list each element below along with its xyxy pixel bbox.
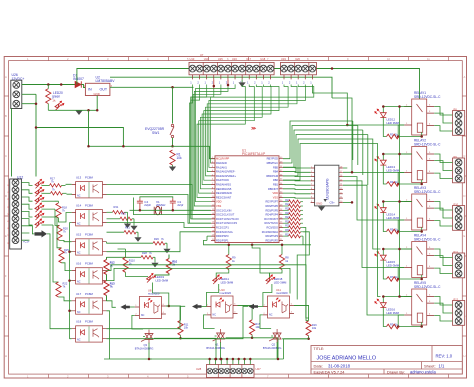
junction gnd a [35, 102, 38, 105]
LED11 LED-3MM [206, 275, 233, 307]
resistor R28 [283, 220, 303, 225]
resistor RW1 10k [169, 150, 182, 171]
junction rail r9 [228, 244, 231, 247]
triac Q2 BTA16-600BRG [260, 315, 281, 359]
svg-text:10k: 10k [177, 156, 183, 160]
capacitor C4 22pF [137, 198, 151, 210]
resistor R13 [104, 281, 115, 301]
svg-text:VSS: VSS [273, 195, 278, 199]
junction 12V rail [331, 67, 334, 70]
wire RB bus to right [283, 121, 381, 297]
resistor R27 [283, 216, 303, 220]
svg-text:RB4: RB4 [273, 170, 279, 174]
svg-text:U17: U17 [246, 57, 251, 61]
PIC left pin labels [216, 157, 239, 243]
svg-text:JOSE ADRIANO MELLO: JOSE ADRIANO MELLO [317, 356, 377, 362]
optocoupler U16 PC8M [72, 262, 107, 284]
LED4 input [35, 203, 44, 212]
resistor R21 [107, 226, 139, 234]
wire strip1 red stubs [214, 79, 228, 88]
port arrow input7 [35, 230, 48, 237]
svg-text:R21: R21 [125, 226, 130, 230]
ground under strip1 [235, 79, 246, 87]
PIC left pin stubs [211, 159, 215, 241]
svg-text:RA4/T0CKI: RA4/T0CKI [216, 178, 229, 182]
svg-text:R31: R31 [114, 205, 119, 209]
svg-text:IN4007: IN4007 [73, 77, 84, 81]
svg-text:LED-3MM: LED-3MM [221, 280, 234, 284]
switch SW1 EVQ22705R [145, 124, 174, 146]
svg-text:RC3/SCK/SCL: RC3/SCK/SCL [216, 230, 234, 234]
capacitor C1 22pf [170, 198, 184, 210]
svg-text:H: H [464, 354, 466, 358]
resistor R26 [283, 212, 303, 217]
svg-text:LED 3MM: LED 3MM [387, 311, 400, 315]
resistor R15 10k [226, 306, 261, 338]
wire bottom rail [149, 338, 284, 359]
svg-text:U27: U27 [256, 367, 262, 371]
svg-text:RC5/SDO: RC5/SDO [266, 226, 278, 230]
junction mclr a [87, 145, 90, 148]
svg-text:adriano.estela: adriano.estela [410, 370, 436, 375]
svg-text:REV: 1.0: REV: 1.0 [436, 353, 453, 358]
svg-text:RD3/PSP3: RD3/PSP3 [265, 234, 278, 238]
wire opto gnd column [70, 223, 72, 339]
ground R32 [130, 219, 137, 231]
LED5 input [35, 211, 44, 220]
PIC right pin stubs [279, 159, 283, 241]
svg-text:RD5/PSP5: RD5/PSP5 [265, 208, 278, 212]
svg-text:LM7805ABV: LM7805ABV [96, 79, 116, 83]
junction R15 bottom [251, 337, 254, 340]
resistor R31 [283, 233, 303, 238]
svg-text:31-08-2018: 31-08-2018 [328, 364, 351, 369]
svg-text:NC: NC [77, 339, 81, 342]
svg-text:RB3/PGM: RB3/PGM [266, 174, 278, 178]
svg-text:U13: U13 [190, 57, 195, 61]
PIC right pin labels [262, 157, 279, 243]
svg-text:E: E [464, 234, 466, 238]
wire relay 12V feeder [400, 107, 412, 297]
wire bus strip1 left to PIC [190, 85, 236, 224]
svg-text:Q2: Q2 [272, 343, 276, 347]
optocoupler U14 PC8M [72, 204, 107, 226]
terminal strip U28 [196, 365, 261, 378]
svg-text:RA2/AN2/VREF-: RA2/AN2/VREF- [216, 170, 235, 174]
junction osc c1 [172, 209, 175, 212]
diode D1 IN4007 [73, 73, 84, 87]
svg-text:1/1: 1/1 [439, 364, 445, 369]
svg-text:D: D [5, 194, 7, 198]
junction feeder b [351, 171, 354, 174]
svg-text:R2: R2 [390, 132, 394, 136]
svg-text:RE2/CS/AN7: RE2/CS/AN7 [216, 195, 232, 199]
svg-text:1k: 1k [52, 98, 56, 102]
resistor R30 [283, 229, 303, 234]
wire input6 to opto6 [47, 234, 72, 329]
svg-text:10k: 10k [312, 326, 317, 330]
svg-text:R3: R3 [390, 322, 394, 326]
svg-text:U15: U15 [218, 57, 223, 61]
svg-text:RB1: RB1 [273, 183, 279, 187]
wire m1 emitter [166, 306, 216, 338]
port arrow AC1 [120, 304, 134, 310]
connector U26 [11, 73, 25, 109]
resistor R10 2k [155, 255, 178, 277]
svg-text:RD7/PSP7: RD7/PSP7 [265, 200, 278, 204]
junction sw node [171, 145, 174, 148]
port arrow AC3 [249, 304, 263, 310]
wire diode to regulator [81, 85, 85, 88]
relay RELAY5 [375, 281, 465, 329]
svg-text:GND: GND [94, 92, 100, 96]
nc mark on bus [252, 127, 256, 129]
svg-text:BTA16-600BRG: BTA16-600BRG [263, 346, 282, 350]
svg-text:BTA16-600BRG: BTA16-600BRG [135, 347, 154, 351]
svg-text:Q3: Q3 [144, 343, 148, 347]
svg-text:RA0/AN0: RA0/AN0 [216, 161, 227, 165]
svg-text:22pF: 22pF [144, 203, 151, 207]
svg-text:U18: U18 [260, 57, 265, 61]
regulator gnd stub [96, 96, 98, 111]
junction bottom triac dots [148, 358, 280, 361]
svg-text:RC0/T1OSO/T1CKI: RC0/T1OSO/T1CKI [216, 217, 239, 221]
svg-text:R26: R26 [154, 237, 159, 241]
svg-text:RB5: RB5 [273, 165, 279, 169]
resistor R32 [107, 212, 135, 221]
svg-text:RA5/AN4/SS: RA5/AN4/SS [216, 183, 231, 187]
resistor R17 7k [42, 177, 66, 188]
svg-text:U15: U15 [76, 233, 82, 237]
svg-text:moc3020: moc3020 [276, 291, 288, 295]
crystal X1 20MHz [154, 200, 166, 215]
junction 5V sw [171, 86, 174, 89]
svg-text:RE1/WR/AN6: RE1/WR/AN6 [216, 191, 232, 195]
resistor R31b [107, 205, 128, 214]
svg-text:U13: U13 [76, 176, 82, 180]
resistor R23 [283, 199, 303, 204]
svg-text:U28: U28 [196, 367, 202, 371]
triac Q3 BTA16-600BRG [132, 315, 153, 359]
svg-text:D: D [464, 194, 466, 198]
junction mclr b [122, 145, 125, 148]
optocoupler U10 moc3020 [206, 288, 237, 318]
svg-text:RB7/PGD: RB7/PGD [267, 157, 279, 161]
svg-text:PC8M: PC8M [85, 204, 93, 208]
label C1 plus [23, 239, 30, 243]
svg-text:RD1/PSP1: RD1/PSP1 [216, 238, 229, 242]
resistor R11 10k [154, 306, 189, 338]
terminal strip 2 [281, 62, 317, 74]
svg-text:SRD-12VDC-SL-C: SRD-12VDC-SL-C [414, 143, 441, 147]
svg-text:LED-3MM: LED-3MM [274, 280, 287, 284]
svg-text:U19: U19 [281, 57, 286, 61]
junction rail mid [251, 244, 254, 247]
svg-text:R5: R5 [390, 227, 394, 231]
svg-text:NC: NC [77, 311, 81, 314]
svg-text:P8: P8 [454, 107, 458, 111]
terminal strip net labels [190, 81, 312, 85]
svg-text:U17: U17 [76, 292, 82, 296]
svg-text:U16: U16 [232, 57, 237, 61]
svg-text:P9: P9 [454, 155, 458, 159]
resistor R8 1k [279, 245, 289, 270]
junction red stub dots [213, 84, 230, 88]
svg-text:RB6/PGC: RB6/PGC [267, 161, 279, 165]
svg-text:RC1/T1OSI/CCP2: RC1/T1OSI/CCP2 [216, 221, 238, 225]
svg-text:moc3020: moc3020 [220, 291, 232, 295]
junction R11 bottom [179, 337, 182, 340]
svg-text:U14: U14 [204, 57, 209, 61]
junction gnd b [35, 126, 38, 129]
svg-text:RC2/CCP1: RC2/CCP1 [216, 226, 229, 230]
connector U12 [10, 175, 24, 249]
svg-text:SRD-12VDC-SL-C: SRD-12VDC-SL-C [414, 285, 441, 289]
junction bottom dots [208, 358, 251, 361]
optocoupler U15 PC8M [72, 233, 107, 255]
svg-text:R32: R32 [121, 212, 126, 216]
wire 12V top rail [77, 69, 420, 100]
terminal strip U7 labels [190, 53, 301, 61]
wire R22 to opto5 [59, 297, 72, 301]
wire m2 emitter [238, 306, 279, 338]
optocoupler U11 moc3020 [263, 288, 294, 318]
svg-text:U7: U7 [200, 53, 204, 57]
svg-text:LED-3MM: LED-3MM [387, 216, 400, 220]
svg-text:G: G [5, 314, 7, 318]
resistor R18 7k [42, 201, 68, 218]
junction feeder a [346, 124, 349, 127]
svg-text:LED-3MM: LED-3MM [387, 168, 400, 172]
svg-text:Date:: Date: [314, 363, 324, 368]
wire bus strip1 right to PIC left (nested) [197, 85, 314, 198]
svg-text:SRD-12VDC-SL-C: SRD-12VDC-SL-C [414, 95, 441, 99]
ground main [75, 110, 82, 115]
svg-text:PC8M: PC8M [85, 292, 93, 296]
svg-text:OSC2/CLKOUT: OSC2/CLKOUT [216, 213, 235, 217]
resistor R22 7k [42, 225, 68, 297]
svg-text:RC4/SDI/SDA: RC4/SDI/SDA [262, 230, 279, 234]
LED19 LED-3MM [147, 273, 169, 306]
ground R31b [124, 212, 131, 228]
wire ULN COM [343, 201, 352, 203]
relay RELAY1 SRD-12VDC-SL-C [375, 91, 465, 139]
op-amp U1 PIC16F877A-I/P [215, 149, 279, 243]
terminal strip pin stubs [193, 75, 313, 80]
LED18 LED-3MM [263, 275, 287, 307]
svg-text:LED-3MM: LED-3MM [156, 278, 169, 282]
resistor R16 10k [282, 306, 317, 339]
resistor R28c 7k [107, 251, 156, 259]
svg-text:10k: 10k [255, 325, 260, 329]
optocoupler U13 PC8M [72, 176, 107, 198]
svg-text:GND: GND [316, 201, 322, 205]
svg-text:A: A [5, 75, 7, 79]
svg-text:PC8M: PC8M [85, 176, 93, 180]
resistor R29 [283, 225, 303, 230]
svg-text:P11: P11 [454, 250, 459, 254]
svg-text:TITLE:: TITLE: [314, 347, 325, 351]
svg-text:VDD: VDD [216, 200, 222, 204]
LED3 input [35, 195, 44, 204]
PIC pin numbers [212, 157, 283, 241]
wire second top rail [110, 77, 332, 98]
svg-text:NC: NC [77, 195, 81, 198]
resistor R24 [283, 203, 303, 208]
resistor R12 [104, 257, 115, 280]
svg-text:R7: R7 [390, 275, 394, 279]
wire osc1 [130, 209, 212, 211]
resistor R12 [104, 257, 115, 280]
svg-text:EasyEDA V5.7.24: EasyEDA V5.7.24 [314, 370, 346, 375]
svg-text:NC: NC [77, 252, 81, 255]
ground R21 [134, 232, 141, 242]
svg-text:RD0/PSP0: RD0/PSP0 [216, 234, 229, 238]
svg-text:VSS: VSS [216, 204, 221, 208]
bottom strip terminals [207, 368, 253, 374]
regulator U2 LM7805ABV [84, 75, 115, 95]
ULN ground [316, 201, 335, 211]
svg-text:VDD: VDD [273, 191, 279, 195]
junction gnd bar b [96, 109, 99, 112]
optocoupler U17 PC8M [72, 292, 107, 314]
svg-text:MCLR/VPP: MCLR/VPP [216, 157, 230, 161]
terminal strip 1 [189, 62, 274, 74]
wire ULN outputs to relays [343, 125, 404, 315]
svg-text:U20: U20 [295, 57, 300, 61]
svg-text:OUT: OUT [100, 87, 108, 91]
junction 12v a [47, 83, 50, 86]
junction relay feeder dots [398, 105, 401, 298]
wire bottom rail extension [104, 236, 207, 359]
resistor R25 7k [42, 217, 70, 263]
junction osc c4 [139, 209, 142, 212]
wire gnd pins [22, 94, 36, 176]
junction ULN COM [351, 201, 354, 204]
svg-text:LED 3MM: LED 3MM [387, 121, 400, 125]
ground R26c [163, 243, 170, 253]
ULN pin numbers [311, 167, 343, 203]
svg-text:RB2: RB2 [273, 178, 279, 182]
svg-text:10: 10 [387, 57, 390, 61]
junction m1 right [168, 305, 171, 308]
wire bottom feeders [252, 228, 309, 319]
wire sw1 feed [172, 87, 174, 123]
resistor R13 [104, 281, 115, 301]
svg-text:+C1+: +C1+ [23, 239, 30, 243]
LED6 input [35, 219, 44, 228]
resistor R25 [283, 208, 303, 213]
wire pic bottom rail [204, 236, 312, 245]
junction 12v c [76, 83, 79, 86]
svg-text:P12: P12 [454, 297, 459, 301]
svg-text:E: E [5, 234, 7, 238]
svg-text:RC6/TX/CK: RC6/TX/CK [264, 221, 278, 225]
port arrow AC2 [192, 304, 206, 310]
svg-text:moc3020: moc3020 [148, 292, 160, 296]
svg-text:H: H [5, 354, 7, 358]
svg-text:RC7/RX/DT: RC7/RX/DT [264, 217, 278, 221]
svg-text:NC: NC [77, 281, 81, 284]
wire opto outputs to PIC [107, 185, 309, 360]
resistor R10 2k [155, 255, 178, 277]
svg-text:RD2/PSP2: RD2/PSP2 [265, 238, 278, 242]
wire r8 to led18 [269, 270, 282, 278]
wire R20 to opto3 [60, 240, 72, 241]
junction 12v b [60, 83, 63, 86]
resistor R26c 7k [107, 237, 168, 245]
svg-text:Sheet:: Sheet: [424, 363, 436, 368]
junction rail r8 [281, 244, 284, 247]
wire mclr drop [88, 110, 90, 146]
svg-text:PC8M: PC8M [85, 262, 93, 266]
svg-text:ULN2803APG: ULN2803APG [326, 178, 330, 200]
junction R16 bottom [307, 338, 310, 341]
svg-text:C9+: C9+ [330, 201, 336, 205]
LED1 input [35, 179, 44, 188]
svg-text:Drawn By:: Drawn By: [387, 370, 405, 375]
wire R18 to opto2 [59, 213, 72, 223]
svg-text:10k: 10k [184, 326, 189, 330]
resistor R20 7k [42, 209, 69, 240]
connector U12 net names [8, 183, 10, 244]
relay RELAY4 [375, 234, 465, 282]
svg-text:U18: U18 [76, 320, 82, 324]
wires bottom strip [210, 359, 251, 365]
svg-text:U14: U14 [76, 204, 82, 208]
svg-text:22pf: 22pf [177, 203, 183, 207]
wire m3 emitter [284, 306, 309, 339]
svg-text:A: A [464, 75, 466, 79]
svg-text:RD6/PSP6: RD6/PSP6 [265, 204, 278, 208]
wire 5V output rail [110, 86, 194, 88]
optocoupler U8 moc3020 [135, 288, 166, 318]
ULN left pin stubs [311, 168, 315, 202]
svg-text:NC: NC [77, 223, 81, 226]
ground R28c [151, 257, 158, 267]
resistor R(led20) vertical [46, 85, 51, 111]
triac Q1 BTA16-600BRG [204, 315, 225, 359]
svg-text:RA3/AN3/VREF+: RA3/AN3/VREF+ [216, 174, 236, 178]
svg-text:SRD-12VDC-SL-C: SRD-12VDC-SL-C [414, 190, 441, 194]
junction gnd bar a [87, 109, 90, 112]
svg-text:B: B [5, 114, 7, 118]
wire R17 to opto1 [66, 184, 72, 194]
svg-text:RA1/AN1: RA1/AN1 [216, 165, 227, 169]
svg-text:R4: R4 [390, 180, 394, 184]
wire left bus B [36, 128, 123, 147]
wire R25 to opto4 [62, 263, 72, 271]
wire cap top join [140, 197, 173, 198]
wire U12 rows [21, 183, 34, 241]
svg-text:LED-3MM: LED-3MM [387, 263, 400, 267]
wire strip2 to relay feeders [312, 85, 352, 173]
svg-text:PC8M: PC8M [85, 233, 93, 237]
svg-text:RE0/RD/AN5: RE0/RD/AN5 [216, 187, 232, 191]
svg-text:IN: IN [88, 87, 92, 91]
wire ULN inputs [283, 167, 311, 198]
svg-text:PC8M: PC8M [85, 320, 93, 324]
svg-text:C: C [464, 154, 466, 158]
resistor R19 7k [42, 188, 67, 195]
wire osc2 [134, 198, 212, 215]
relay RELAY2 [375, 139, 465, 187]
junction opto gnd dots [68, 250, 71, 312]
svg-text:OSC1/CLKIN: OSC1/CLKIN [216, 208, 232, 212]
LED20 [48, 91, 97, 110]
LED2 input [35, 187, 44, 196]
svg-text:P10: P10 [454, 202, 459, 206]
